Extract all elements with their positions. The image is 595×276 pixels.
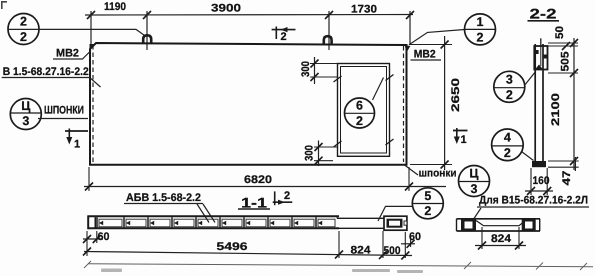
lifting loop 1 [143,35,151,43]
svg-text:824: 824 [351,245,372,257]
label MV2 right [411,49,442,61]
detail circle II/3 left [10,99,41,130]
hollow core void cell 5 [196,217,218,228]
dim 300 top [300,57,338,84]
leader from corner to circle 1/2 [409,30,465,45]
detail circle 5/2 [378,188,443,221]
svg-text:3: 3 [506,73,513,87]
svg-text:5: 5 [424,189,431,203]
panel right dashed edge [403,46,405,162]
detail circle 1/2 [465,14,496,45]
dim 824 right bar [475,227,526,250]
detail circle II/3 right [459,166,490,197]
svg-text:2100: 2100 [550,93,562,126]
svg-text:Для В15-68.27.16-2.2Л: Для В15-68.27.16-2.2Л [479,195,588,207]
label shponki left [38,105,88,119]
section mark 1 right [453,128,468,146]
section title 1-1 [238,195,270,211]
dim 60 left [83,231,110,243]
door opening [338,64,390,157]
svg-text:2: 2 [356,114,363,128]
bottom-right bar left void [461,220,476,231]
section 1-1 plain web zone [337,216,384,229]
label MV2 left [53,48,91,60]
dim 60 right end [401,231,421,248]
top dimension line [85,11,413,50]
dim 300 bottom [304,141,338,167]
svg-text:2: 2 [424,204,431,218]
svg-text:В 1.5-68.27.16-2.2: В 1.5-68.27.16-2.2 [3,66,89,78]
svg-text:1: 1 [477,15,484,29]
section 2-2 panel edges [535,44,543,161]
bottom dimension line 5496/824/500 [83,231,412,260]
hollow core void cell 8 [268,217,290,228]
lifting loop 2 [324,36,332,44]
detail circle 4/2 [492,129,534,161]
svg-text:1-1: 1-1 [241,195,267,211]
svg-text:2: 2 [506,88,513,102]
svg-text:2650: 2650 [450,78,462,112]
svg-text:6: 6 [356,99,363,113]
svg-text:300: 300 [300,61,312,77]
embed MV2 in section [534,38,547,69]
panel left dashed edge [92,45,94,162]
svg-text:2: 2 [20,30,27,44]
label ABV 1.5-68-2.2 [124,192,215,223]
hollow core void cell 2 [124,217,146,228]
dim 2650 [409,36,462,170]
scan smudges bottom [101,269,423,274]
hollow core void cell 1 [97,217,122,228]
svg-text:1730: 1730 [351,4,377,16]
svg-text:3: 3 [471,182,478,196]
section 1-1 bar top flange [88,215,340,217]
bottom-right bar outline [457,219,541,231]
svg-text:47: 47 [561,171,573,186]
svg-text:шпонки: шпонки [419,168,457,180]
label B 1.5-68.27.16-2.2 [2,66,101,87]
svg-text:МВ2: МВ2 [56,48,79,60]
svg-text:2: 2 [504,146,511,160]
svg-text:3900: 3900 [211,3,241,15]
section title 2-2 [528,6,560,22]
svg-text:6820: 6820 [244,174,272,186]
hollow core void cell 4 [172,217,194,228]
svg-text:2: 2 [20,15,27,29]
detail circle 3/2 [494,71,535,102]
embed MV2 wedge top-right [405,45,411,53]
section mark 2 top [272,27,296,44]
section mark 2 bottom [273,190,293,205]
dim 160 [525,168,553,195]
svg-text:МВ2: МВ2 [414,49,436,61]
label Dlya V15-68.27.16-2.2L [474,195,589,219]
hollow core void cell 10 [316,217,335,228]
faint next-row line bottom [84,261,593,270]
label shponki right [405,165,457,180]
detail circle 2/2 [8,14,39,45]
section mark 1 left [65,129,88,151]
svg-text:505: 505 [560,52,572,72]
svg-text:5496: 5496 [217,241,248,253]
section 1-1 right void block [384,216,407,230]
svg-text:60: 60 [98,231,110,243]
svg-text:1: 1 [460,134,466,146]
svg-text:Ц: Ц [469,167,479,181]
svg-text:ШПОНКИ: ШПОНКИ [44,105,84,117]
hollow core void cell 9 [292,217,314,228]
dim 6820 [84,167,446,191]
svg-text:500: 500 [384,245,401,257]
svg-text:1: 1 [74,139,80,151]
svg-text:50: 50 [554,26,566,39]
svg-text:160: 160 [533,175,550,187]
leader from circle 2/2 to lifting loop [8,29,146,36]
bottom-right bar right void [522,220,536,231]
section 1-1 bar bottom flange [88,227,340,229]
svg-text:60: 60 [409,231,421,243]
svg-text:2: 2 [284,190,290,202]
svg-text:824: 824 [491,233,512,245]
opening embed slashes [334,75,394,148]
scan corner mark [1,1,7,9]
svg-text:2-2: 2-2 [530,6,557,22]
panel outline (plan view) [90,43,407,165]
svg-text:2: 2 [280,31,286,43]
svg-text:3: 3 [22,114,29,128]
dimension ticks top [87,11,414,19]
svg-text:2: 2 [477,31,484,45]
svg-text:1190: 1190 [104,1,126,13]
svg-text:4: 4 [504,131,511,145]
embed MV2 wedge top-left [90,44,95,50]
dim chain 50/505/2100 [548,26,578,170]
dim 47 [548,157,579,186]
svg-text:300: 300 [304,145,316,161]
hollow core void cell 7 [244,217,266,228]
detail circle 6/2 [345,78,384,129]
svg-text:АБВ 1.5-68-2.2: АБВ 1.5-68-2.2 [126,192,201,204]
svg-text:Ц: Ц [21,99,31,113]
hollow core void cell 6 [220,217,242,228]
hollow core void cell 3 [148,217,170,228]
bottom embed plate in section [532,161,546,167]
section 1-1 left end block [88,216,95,230]
